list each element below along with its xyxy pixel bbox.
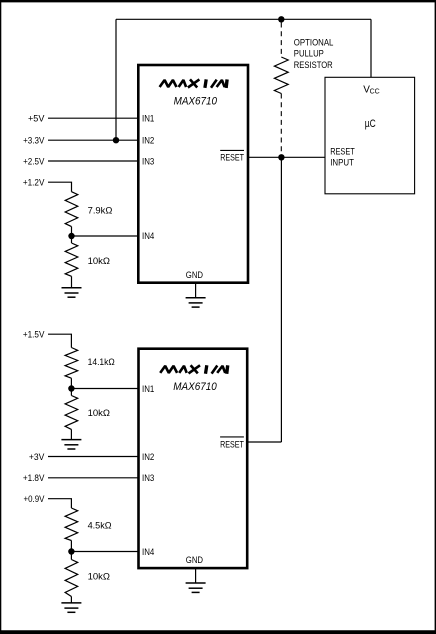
node: +3.3V joins top rail (113, 137, 119, 143)
svg-text:+3V: +3V (29, 452, 45, 462)
svg-text:RESET: RESET (220, 439, 244, 449)
node: divider tap (U2 IN4) (68, 548, 74, 554)
resistor R 7.9k (65, 192, 78, 227)
node: divider tap (U2 IN1) (68, 385, 74, 391)
svg-text:10kΩ: 10kΩ (88, 408, 111, 418)
wire: divider bottom to ground (71, 276, 73, 288)
wire: divider bottom to ground (70, 429, 72, 439)
wire: +0.9V input to divider (48, 499, 71, 508)
svg-text:+1.5V: +1.5V (23, 330, 45, 340)
IC U2 MAX6710 box (139, 349, 248, 568)
svg-text:+1.8V: +1.8V (23, 473, 45, 483)
wire: top supply rail (116, 18, 371, 20)
wire: U2 RESET output horizontal (248, 441, 281, 443)
svg-text:4.5kΩ: 4.5kΩ (88, 520, 112, 530)
node: junction of pullup resistor and top rail (278, 16, 284, 22)
ground: top divider ground (62, 288, 82, 297)
svg-text:RESET: RESET (220, 153, 244, 163)
logo: MAXIM (U1) (160, 79, 228, 88)
pin label: RESET INPUT (uC) (330, 147, 355, 168)
wire: divider tap segment (71, 227, 73, 243)
resistor R 10k (top divider) (65, 243, 78, 276)
svg-text:10kΩ: 10kΩ (88, 256, 111, 266)
svg-text:+0.9V: +0.9V (24, 494, 45, 504)
svg-text:OPTIONAL: OPTIONAL (294, 37, 334, 47)
wire: U1 RESET output to uC RESET input (248, 156, 325, 158)
svg-text:IN1: IN1 (142, 114, 154, 124)
wire: +5V input to IN1 (48, 117, 138, 119)
node: divider tap (68, 233, 74, 239)
resistor R 4.5k (65, 508, 78, 541)
svg-text:MAX6710: MAX6710 (173, 381, 217, 393)
wire: dashed connection from pullup resistor to RESET net (280, 94, 282, 155)
wire: left vertical from top rail down to IN2 net (115, 19, 117, 140)
ground: U2 ground (186, 583, 206, 592)
svg-text:IN4: IN4 (142, 231, 154, 241)
svg-text:10kΩ: 10kΩ (88, 572, 111, 582)
wire: divider tap to U2 IN4 (71, 551, 138, 553)
svg-text:µC: µC (365, 118, 376, 130)
svg-text:+3.3V: +3.3V (23, 136, 44, 146)
resistor: optional pullup resistor (274, 57, 288, 94)
svg-text:+1.2V: +1.2V (23, 178, 45, 188)
svg-text:INPUT: INPUT (330, 158, 354, 168)
wire: dashed connection from top rail to optional pullup resistor (280, 23, 282, 58)
node: RESET net junction (278, 154, 284, 160)
wire: +2.5V input to IN3 (48, 160, 138, 162)
svg-text:7.9kΩ: 7.9kΩ (88, 206, 113, 216)
wire: +3V input to U2 IN2 (48, 456, 138, 458)
svg-text:+5V: +5V (28, 114, 44, 124)
wire: +1.8V input to U2 IN3 (48, 477, 138, 479)
wire: divider tap segment (U2 IN4) (70, 541, 72, 560)
svg-text:14.1kΩ: 14.1kΩ (88, 357, 115, 367)
svg-text:RESET: RESET (330, 147, 355, 157)
wire: U2 GND pin to ground (195, 568, 197, 583)
svg-text:PULLUP: PULLUP (294, 49, 324, 59)
label: VCC (uC) (363, 85, 379, 96)
wire: RESET net vertical joining U2 RESET (280, 157, 282, 442)
wire: divider tap to IN4 (72, 235, 139, 237)
svg-text:IN4: IN4 (142, 547, 154, 557)
svg-text:IN2: IN2 (142, 136, 154, 146)
svg-text:GND: GND (186, 555, 204, 565)
wire: +1.5V input to divider (48, 334, 71, 347)
svg-text:IN1: IN1 (142, 384, 154, 394)
svg-text:CC: CC (370, 88, 380, 95)
svg-text:GND: GND (186, 270, 204, 280)
wire: +3.3V input to IN2 (48, 139, 138, 141)
svg-text:RESISTOR: RESISTOR (294, 60, 333, 70)
ground: IN4 divider ground (61, 603, 81, 612)
ground: U1 ground (186, 298, 206, 307)
wire: divider bottom to ground (70, 597, 72, 603)
svg-text:MAX6710: MAX6710 (174, 95, 218, 107)
svg-text:IN3: IN3 (142, 156, 154, 166)
IC uC microcontroller box (325, 77, 415, 194)
resistor R 10k (IN4 divider) (65, 560, 78, 597)
wire: +1.2V input to divider (48, 182, 72, 192)
wire: U1 GND pin to ground (195, 283, 197, 298)
logo: MAXIM (U2) (160, 365, 228, 374)
wire: divider tap to U2 IN1 (71, 388, 138, 390)
ground: IN1 divider ground (61, 440, 81, 449)
wire: right vertical from top rail down to uC VCC (370, 19, 372, 77)
resistor R 14.1k (65, 348, 78, 379)
resistor R 10k (IN1 divider) (65, 396, 78, 430)
label: OPTIONAL PULLUP RESISTOR (294, 37, 334, 70)
svg-text:IN3: IN3 (142, 473, 154, 483)
svg-text:+2.5V: +2.5V (23, 156, 44, 166)
wire: divider tap segment (U2 IN1) (70, 378, 72, 395)
op-amp? no: IC U1 MAX6710 box (138, 65, 248, 283)
svg-text:IN2: IN2 (142, 452, 154, 462)
